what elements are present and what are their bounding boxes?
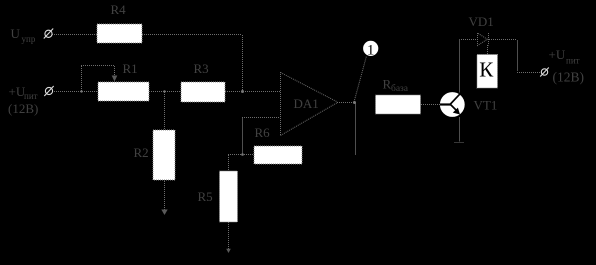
svg-text:упр: упр [22, 34, 36, 44]
svg-text:R1: R1 [123, 61, 138, 76]
svg-text:(12В): (12В) [553, 70, 585, 85]
svg-text:1: 1 [367, 42, 375, 58]
svg-text:пит: пит [566, 56, 580, 66]
svg-text:+U: +U [549, 47, 566, 62]
svg-text:R3: R3 [194, 61, 209, 76]
svg-text:R5: R5 [198, 189, 213, 204]
svg-text:DA1: DA1 [294, 96, 319, 111]
svg-text:VT1: VT1 [474, 98, 498, 113]
svg-text:VD1: VD1 [469, 14, 494, 29]
svg-text:пит: пит [24, 91, 38, 101]
svg-text:U: U [11, 26, 21, 41]
svg-text:R6: R6 [255, 125, 271, 140]
svg-text:(12В): (12В) [8, 101, 38, 116]
svg-text:К: К [479, 58, 494, 82]
svg-text:база: база [391, 83, 409, 94]
svg-text:R2: R2 [134, 145, 149, 160]
svg-text:R4: R4 [111, 2, 127, 17]
